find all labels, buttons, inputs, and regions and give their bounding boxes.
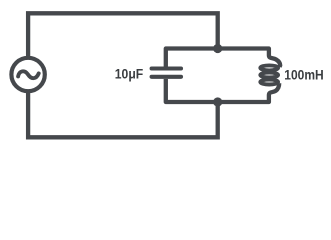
wire: top loop from AC source top, along top, down to tank top junction — [28, 13, 218, 57]
svg-text:100mH: 100mH — [284, 68, 323, 84]
sine symbol inside source — [18, 71, 39, 78]
AC source V1 — [11, 58, 44, 91]
inductor L1 coil loop 1 — [260, 65, 278, 70]
wire: LC tank rails + capacitor branch stubs + inductor entry/exit — [166, 49, 280, 103]
svg-text:10μF: 10μF — [115, 66, 144, 82]
wire: bottom loop from AC source bottom, along bottom, up to tank bottom junction — [28, 92, 218, 138]
capacitor C1 top plate — [152, 66, 181, 70]
junction node bottom — [213, 97, 222, 106]
inductor L1 coil loop 3 — [260, 80, 278, 85]
junction node top — [213, 44, 222, 53]
inductor L1 coil loop 2 — [260, 73, 278, 78]
capacitor C1 bottom plate — [152, 75, 181, 79]
